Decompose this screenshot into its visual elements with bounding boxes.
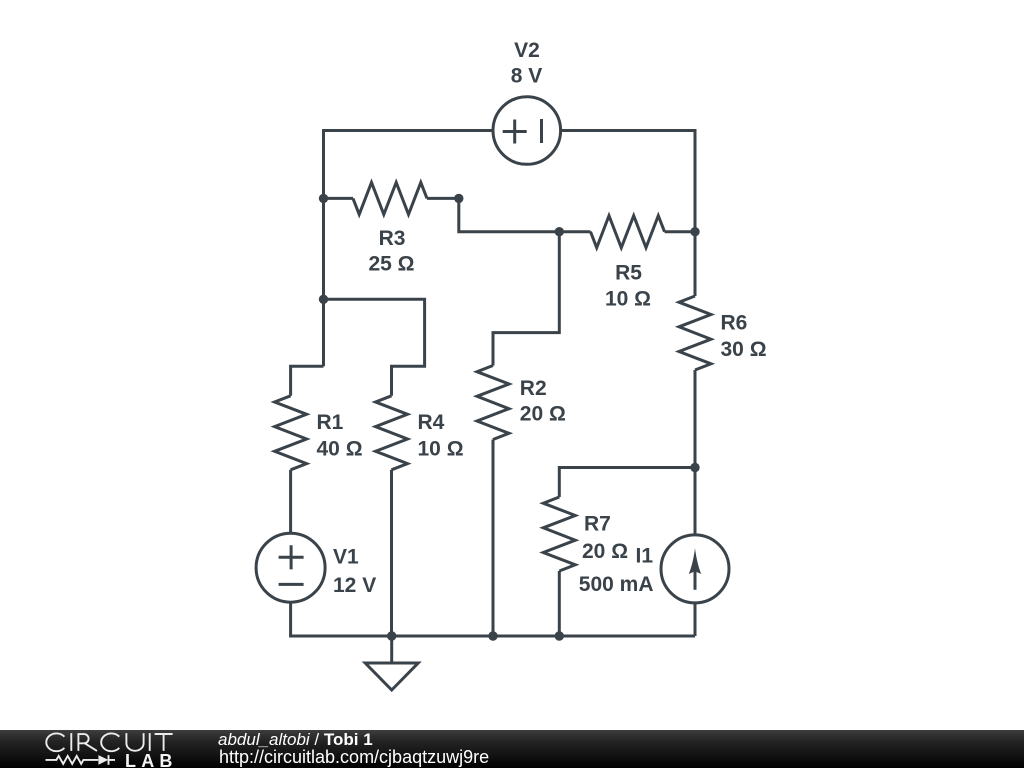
wire R1 bottom to V1 [289,470,292,533]
wire left rail [322,129,325,366]
wire R7 top [559,468,695,498]
voltage source V1 [256,533,325,602]
wire R3 node to R5 row [459,198,560,231]
logo letter I [149,733,151,751]
wire right rail middle [694,370,697,535]
svg-text:R2: R2 [520,377,547,400]
resistor R3 [353,182,427,214]
svg-text:V1: V1 [333,546,359,569]
svg-text:8 V: 8 V [511,65,543,88]
logo LAB text [125,751,178,768]
wire I1 bottom [694,603,697,636]
svg-text:10 Ω: 10 Ω [418,438,464,461]
logo icon resistor wire and zigzag [46,756,99,764]
node R2 bottom [488,631,497,640]
resistor R4 [376,396,408,470]
node R3 right [454,194,463,203]
logo letter C [101,733,119,751]
svg-text:R7: R7 [584,513,611,536]
resistor R6 [679,296,711,370]
svg-text:V2: V2 [514,39,540,62]
wire R3 left lead [324,197,354,200]
CircuitLab logo [0,730,180,768]
wire branch node to R4 top [324,299,425,396]
current source I1 [661,535,729,603]
svg-text:30 Ω: 30 Ω [721,338,767,361]
wire R2 top jog [493,232,559,366]
svg-text:20 Ω: 20 Ω [582,540,628,563]
svg-text:500 mA: 500 mA [579,573,654,596]
wire R3 right lead [427,197,459,200]
logo letter T [155,734,173,751]
wire top rail right segment [561,129,696,132]
footer bar [0,730,1024,768]
footer url line [219,747,489,768]
wire ground stub [390,636,393,663]
svg-text:R6: R6 [721,311,748,334]
node R3 left [319,194,328,203]
resistor R5 [591,216,665,248]
node ground [387,631,396,640]
ground [365,663,418,690]
resistor R1 [275,396,307,470]
wire R2 bottom [492,440,495,637]
wire R5 right lead [665,230,696,233]
svg-text:I1: I1 [635,545,653,568]
svg-text:10 Ω: 10 Ω [605,288,651,311]
svg-text:R5: R5 [615,262,642,285]
wire R5 left lead [559,230,590,233]
logo letter C [46,733,64,751]
logo icon diode triangle [98,755,108,765]
svg-text:R3: R3 [379,227,406,250]
node left branch [319,295,328,304]
svg-text:R4: R4 [418,411,445,434]
wire top rail left segment [324,129,494,132]
resistor R2 [477,366,509,440]
resistor R7 [543,497,575,571]
wire V1 bottom [289,602,292,636]
wire bottom rail [289,635,695,638]
svg-text:12 V: 12 V [333,574,376,597]
wire R7 bottom [558,571,561,636]
svg-text:R1: R1 [317,411,344,434]
footer author line [218,730,373,750]
logo letter U [126,733,143,751]
wire R4 bottom [390,470,393,636]
wire right rail upper [694,129,697,296]
voltage source V2 [493,97,561,165]
node R5 left [555,227,564,236]
logo letter R [78,733,97,751]
node R7 bottom [555,631,564,640]
svg-text:25 Ω: 25 Ω [368,252,414,275]
logo icon diode bar [109,755,116,765]
logo letter I [70,733,72,751]
node right I1 top [690,463,699,472]
svg-text:20 Ω: 20 Ω [520,403,566,426]
svg-text:40 Ω: 40 Ω [317,438,363,461]
node R5 right [690,227,699,236]
wire R1 top jog [291,366,324,396]
